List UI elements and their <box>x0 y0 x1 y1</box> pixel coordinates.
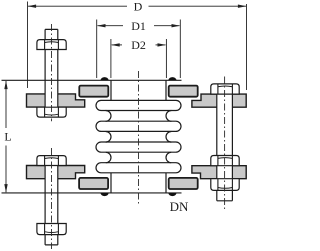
D extension line right <box>246 4 248 90</box>
centerline main axis <box>138 71 140 206</box>
centerline upper-left bolt <box>51 24 53 121</box>
lap face line top <box>2 79 182 81</box>
flange upper right <box>192 94 246 107</box>
bellows cuff bottom left <box>110 173 112 193</box>
bellows convolution 3 <box>96 142 181 152</box>
dimension D2 line <box>112 44 166 46</box>
bellows cuff top right <box>165 80 167 100</box>
dimension D left arrow <box>28 5 36 8</box>
bellows root arc right 3 <box>166 152 171 162</box>
bellows convolution 4 <box>96 163 181 173</box>
D extension line left <box>27 2 29 89</box>
dimension L line <box>5 81 7 192</box>
bellows convolution 1 <box>96 100 181 110</box>
nut right bottom (chamfer down) <box>211 179 239 191</box>
collar lower left <box>79 178 108 189</box>
collar upper right <box>169 86 198 97</box>
weld bead lower right <box>168 193 177 196</box>
bellows convolution 2 <box>96 121 181 131</box>
tie rod right <box>217 84 233 201</box>
flange lower right <box>192 166 246 179</box>
weld bead upper left <box>100 77 109 80</box>
centerline lower-left bolt <box>51 148 53 249</box>
dimension D2 right arrow <box>158 43 167 46</box>
D1 extension line left <box>96 20 98 79</box>
weld bead upper right <box>168 77 177 80</box>
svg-text:D1: D1 <box>131 19 146 33</box>
D1 extension line right <box>179 20 181 79</box>
dimension D right arrow <box>238 5 247 8</box>
nut right middle (chamfer up) <box>211 156 239 166</box>
bellows root arc right 1 <box>166 111 171 122</box>
svg-text:DN: DN <box>170 199 189 214</box>
D2 extension line right <box>165 39 167 78</box>
D2 extension line left <box>110 39 112 78</box>
bellows root arc left 1 <box>106 111 111 122</box>
bellows root arc right 2 <box>166 132 171 143</box>
nut right top (chamfer up) <box>211 84 239 94</box>
bellows cuff top left <box>110 80 112 100</box>
lap face line bottom <box>2 192 182 194</box>
flange lower left <box>27 166 85 179</box>
bellows root arc left 3 <box>106 152 111 162</box>
dimension D2 left arrow <box>111 43 120 46</box>
nut upper-left bottom (chamfer down) <box>37 107 66 117</box>
weld bead lower left <box>100 193 109 196</box>
collar upper left <box>79 86 108 97</box>
flange upper left <box>27 94 85 107</box>
nut upper-left top (chamfer up) <box>37 40 66 50</box>
bolt rod upper left <box>45 29 58 117</box>
svg-text:D2: D2 <box>131 38 146 52</box>
bellows root arc left 2 <box>106 132 111 143</box>
bolt rod lower left <box>45 156 58 245</box>
dimension L up arrow <box>4 81 7 90</box>
dimension D1 line <box>98 25 180 27</box>
centerline right tie rod <box>224 77 226 210</box>
dimension D1 right arrow <box>172 24 181 27</box>
nut lower-left top (chamfer up) <box>37 156 66 166</box>
dimension L down arrow <box>4 184 7 193</box>
svg-text:L: L <box>4 129 11 143</box>
nut lower-left bottom (chamfer down) <box>37 224 66 235</box>
dimension D1 left arrow <box>97 24 106 27</box>
collar lower right <box>169 178 198 189</box>
dimension D line <box>28 5 246 7</box>
svg-text:D: D <box>134 0 143 14</box>
bellows cuff bottom right <box>165 173 167 193</box>
